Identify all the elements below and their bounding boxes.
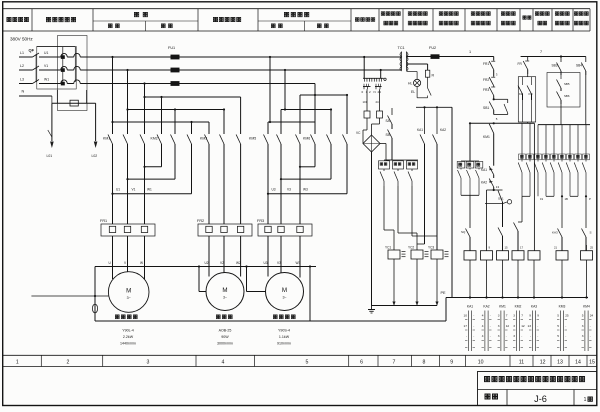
svg-text:KM1: KM1 — [483, 135, 490, 139]
PE rail above motors — [95, 266, 316, 268]
svg-text:5: 5 — [557, 334, 559, 338]
selector switch SA1 with circle — [507, 200, 511, 204]
motor3 rail y122 — [268, 121, 315, 123]
svg-text:KA3: KA3 — [552, 231, 558, 235]
clutch coil returns to rectifier rail — [393, 259, 395, 306]
svg-text:-: - — [530, 334, 531, 338]
svg-text:YC1: YC1 — [385, 245, 391, 249]
svg-text:FR: FR — [518, 62, 523, 66]
svg-text:L2: L2 — [20, 64, 24, 68]
svg-text:N: N — [22, 89, 25, 93]
header mid dividers for spanning cells — [93, 20, 198, 22]
svg-text:FR2: FR2 — [197, 219, 204, 223]
wire to coil KM4 — [585, 196, 587, 228]
svg-text:-: - — [490, 334, 491, 338]
bus bar L2 with crossing hops — [44, 69, 61, 71]
svg-text:J-6: J-6 — [534, 394, 547, 404]
svg-text:7: 7 — [540, 50, 542, 54]
neutral fuse bar — [52, 102, 96, 104]
motor1 reversing crossover wires — [144, 146, 146, 167]
control zero-volt wire — [451, 107, 453, 297]
motor3 drops from L1 L2 — [269, 57, 271, 122]
svg-text:U1: U1 — [44, 51, 48, 55]
svg-text:9: 9 — [537, 314, 539, 318]
svg-text:5: 5 — [557, 314, 559, 318]
svg-text:2: 2 — [67, 360, 70, 366]
phase L1 incoming wire — [19, 56, 33, 58]
svg-text:KA2: KA2 — [481, 181, 487, 185]
svg-text:8: 8 — [423, 360, 426, 366]
aux contact KA1 branch — [423, 106, 425, 108]
svg-text:3: 3 — [582, 324, 584, 328]
drawing title text — [484, 376, 584, 381]
svg-text:13: 13 — [557, 360, 563, 366]
svg-text:7: 7 — [521, 314, 523, 318]
svg-text:-: - — [490, 324, 491, 328]
signal lamp EL — [414, 79, 421, 86]
bottom ruler band — [3, 354, 597, 356]
svg-text:FR3: FR3 — [257, 219, 264, 223]
svg-text:SB6: SB6 — [564, 94, 570, 98]
svg-text:L1: L1 — [20, 51, 24, 55]
svg-text:YC2: YC2 — [408, 245, 414, 249]
svg-text:13: 13 — [528, 324, 532, 328]
svg-text:KM6: KM6 — [303, 137, 310, 141]
current sensing box (outer) — [58, 36, 88, 111]
svg-text:KA2: KA2 — [440, 128, 446, 132]
svg-text:24: 24 — [590, 314, 594, 318]
svg-text:9: 9 — [450, 360, 453, 366]
svg-text:V1: V1 — [44, 64, 48, 68]
svg-text:3~: 3~ — [127, 296, 131, 300]
svg-text:V1: V1 — [132, 188, 136, 192]
wires to rectifier — [366, 118, 368, 130]
resistor R — [425, 70, 429, 77]
limit cluster bottom rail — [461, 194, 479, 196]
svg-text:10: 10 — [464, 314, 468, 318]
label tu hao — [485, 394, 498, 399]
stop button SB1 with parallel branch — [493, 98, 495, 100]
motor M1 circle — [108, 272, 149, 313]
TC2 secondary windings — [363, 86, 371, 88]
relay contact KA1 arrow — [489, 166, 494, 175]
svg-text:1: 1 — [16, 360, 19, 366]
motor M3 name text — [273, 315, 295, 319]
motor3 rail y95 — [300, 94, 347, 96]
auxiliary wire rail y107 — [416, 106, 452, 108]
right rail 2 — [521, 56, 586, 58]
svg-text:3: 3 — [513, 324, 515, 328]
svg-text:3: 3 — [582, 334, 584, 338]
clutch ground rail — [372, 305, 438, 307]
svg-text:-: - — [506, 334, 507, 338]
motor1 tap junctions on buses — [111, 56, 113, 58]
neutral fuse FU — [70, 100, 78, 106]
lighting transformer TC2 primary taps — [363, 56, 365, 58]
svg-text:17: 17 — [464, 324, 468, 328]
cross reference table KM2 — [515, 311, 517, 352]
motor2 frame bond — [198, 265, 200, 267]
svg-text:KM2: KM2 — [515, 305, 522, 309]
svg-text:-: - — [473, 314, 474, 318]
right lower rail — [538, 124, 590, 126]
svg-text:3: 3 — [513, 334, 515, 338]
svg-text:7: 7 — [393, 360, 396, 366]
svg-text:25: 25 — [565, 314, 569, 318]
header table band — [3, 8, 590, 10]
coil KM3 — [556, 251, 568, 260]
svg-text:-: - — [590, 324, 591, 328]
svg-text:KM: KM — [529, 92, 533, 96]
cross reference table KA1 — [467, 311, 469, 352]
lighting fuse FU3 — [364, 111, 370, 118]
motor M3 leads — [267, 236, 269, 277]
svg-text:3: 3 — [498, 334, 500, 338]
clutch selector contact KA1 — [379, 161, 390, 169]
svg-text:-: - — [490, 314, 491, 318]
svg-text:3~: 3~ — [282, 296, 286, 300]
svg-text:SA1: SA1 — [498, 197, 504, 201]
svg-text:W1: W1 — [44, 78, 49, 82]
svg-text:R: R — [432, 74, 435, 78]
svg-text:KA1: KA1 — [467, 305, 473, 309]
svg-text:1B: 1B — [565, 197, 569, 201]
svg-text:Y90S-4: Y90S-4 — [278, 329, 290, 333]
svg-text:101: 101 — [363, 100, 368, 104]
svg-text:380V 50Hz: 380V 50Hz — [10, 37, 33, 42]
svg-text:S: S — [590, 231, 592, 235]
svg-text:12: 12 — [540, 360, 546, 366]
svg-text:KA1: KA1 — [417, 128, 423, 132]
header cell texts (pseudo CJK) — [7, 17, 29, 21]
svg-text:11: 11 — [519, 360, 524, 366]
svg-text:90W: 90W — [221, 335, 229, 339]
svg-text:1.1kW: 1.1kW — [279, 335, 290, 339]
title block frame — [478, 372, 597, 406]
motor M2 circle — [206, 273, 244, 311]
svg-text:3000r/min: 3000r/min — [217, 342, 233, 346]
svg-text:U2: U2 — [205, 261, 209, 265]
svg-text:TC1: TC1 — [398, 46, 405, 50]
svg-text:-: - — [565, 334, 566, 338]
lighting circuit wires down — [366, 89, 368, 111]
distribution rail y122 — [113, 121, 210, 123]
svg-text:12: 12 — [506, 324, 510, 328]
coil KM2 — [512, 251, 524, 260]
motor2 wires to overload — [208, 146, 210, 224]
pre-coil contact — [498, 228, 503, 237]
motor M2 name text — [216, 315, 232, 319]
isolation box around supply fuses — [37, 46, 76, 89]
bus bar L1 with crossing hops — [44, 56, 61, 58]
svg-text:KM3: KM3 — [559, 305, 566, 309]
rectifier DC negative long wire — [371, 152, 373, 306]
TC2 primary winding — [363, 77, 384, 79]
overload NC contact FR3 — [489, 87, 494, 96]
svg-text:6: 6 — [360, 360, 363, 366]
distribution rail y109.5 — [128, 109, 225, 111]
sensing coil verticals — [62, 47, 64, 82]
svg-text:1: 1 — [584, 397, 587, 403]
svg-text:7: 7 — [506, 314, 508, 318]
svg-text:5: 5 — [306, 360, 309, 366]
motor3 L3 corner drop — [314, 84, 316, 96]
svg-text:AOB-25: AOB-25 — [219, 329, 232, 333]
svg-text:KM4: KM4 — [583, 305, 590, 309]
svg-text:10: 10 — [478, 360, 484, 366]
svg-text:W3: W3 — [303, 188, 308, 192]
cross reference table KM4 — [584, 311, 586, 352]
svg-text:M: M — [282, 287, 287, 294]
svg-text:-: - — [466, 334, 467, 338]
motor3 right frame wire — [309, 265, 311, 267]
svg-text:SQ: SQ — [461, 230, 466, 234]
feeder drop L01 with arrow — [51, 96, 53, 103]
svg-text:V2: V2 — [220, 261, 224, 265]
svg-text:W3: W3 — [296, 261, 301, 265]
motor M1 leads — [112, 236, 114, 279]
svg-text:13: 13 — [496, 185, 500, 189]
svg-text:M: M — [126, 288, 131, 295]
svg-text:KM: KM — [519, 92, 523, 96]
motor3 wires to overload — [267, 194, 269, 224]
svg-text:W: W — [140, 261, 143, 265]
svg-text:PE: PE — [441, 291, 447, 295]
svg-text:4: 4 — [482, 324, 484, 328]
coil KA1 — [464, 251, 476, 260]
svg-text:25: 25 — [590, 246, 594, 250]
TC1 secondary tap wires — [407, 56, 431, 58]
ground symbol — [371, 306, 373, 310]
coil KA2 — [481, 251, 493, 260]
svg-text:0: 0 — [362, 90, 364, 94]
svg-text:SB5: SB5 — [564, 82, 570, 86]
svg-text:1: 1 — [469, 50, 471, 54]
interlock branch FR4 — [527, 57, 529, 61]
svg-text:V3: V3 — [277, 261, 281, 265]
motor3 rail y109.5 — [281, 109, 331, 111]
overload NC contact FR1 — [489, 61, 494, 69]
svg-text:17: 17 — [520, 246, 524, 250]
svg-text:M: M — [222, 287, 227, 294]
svg-text:-: - — [521, 334, 522, 338]
svg-text:FU1: FU1 — [168, 46, 175, 50]
svg-text:-: - — [473, 334, 474, 338]
wire to coil KA2 — [486, 190, 488, 251]
selector wires to clutch coils — [383, 186, 385, 230]
svg-text:SB4: SB4 — [576, 64, 582, 68]
stub wires from sensing box to neutral bar — [56, 90, 58, 103]
svg-text:5: 5 — [557, 324, 559, 328]
main rung corner — [493, 57, 495, 61]
svg-text:FR1: FR1 — [483, 62, 489, 66]
coil KM1 — [497, 251, 509, 260]
svg-text:15: 15 — [589, 360, 595, 366]
PE bottom rail — [95, 320, 446, 322]
rectifier DC positive feed — [380, 143, 386, 145]
svg-text:U1: U1 — [116, 188, 120, 192]
svg-text:SB1: SB1 — [483, 106, 489, 110]
svg-text:-: - — [537, 334, 538, 338]
svg-text:24: 24 — [376, 100, 380, 104]
motor1 phase drop wires — [112, 57, 114, 134]
motor1 wires to overload — [112, 194, 114, 224]
svg-text:5: 5 — [496, 117, 498, 121]
svg-text:3: 3 — [513, 314, 515, 318]
interlock box KM1 KM2 — [518, 77, 535, 122]
svg-text:KA3: KA3 — [531, 305, 537, 309]
svg-text:L02: L02 — [92, 154, 98, 158]
motor M3 circle — [266, 273, 304, 311]
wire to coil KA1 — [469, 195, 471, 228]
PE riser to control return rail — [445, 298, 447, 322]
svg-text:2: 2 — [369, 90, 371, 94]
svg-text:21: 21 — [554, 246, 558, 250]
overload NC contact FR2 — [489, 77, 494, 86]
svg-text:FR1: FR1 — [100, 219, 107, 223]
svg-text:9: 9 — [529, 314, 531, 318]
svg-text:U3: U3 — [264, 261, 268, 265]
svg-text:910r/min: 910r/min — [277, 342, 291, 346]
aux contact KA2 branch — [436, 106, 438, 108]
earth clamp symbol — [92, 304, 97, 313]
push button SB3 branch — [560, 57, 562, 63]
bus bar L3 with crossing hops — [44, 83, 61, 85]
wire 0V drop from rail corner — [533, 123, 535, 250]
svg-text:L3: L3 — [20, 78, 24, 82]
seal-in contact KM1 — [489, 124, 494, 134]
svg-text:P: P — [589, 197, 591, 201]
svg-text:FU2: FU2 — [429, 46, 436, 50]
svg-text:N: N — [374, 90, 376, 94]
contact row bottom links — [522, 195, 530, 197]
distribution rail y97 — [145, 96, 241, 98]
svg-text:-: - — [473, 324, 474, 328]
svg-text:VC: VC — [356, 131, 361, 135]
svg-text:3~: 3~ — [223, 296, 227, 300]
svg-text:-: - — [537, 324, 538, 328]
motor3 frame bond — [245, 265, 247, 267]
svg-text:QF: QF — [29, 48, 35, 53]
svg-text:3: 3 — [496, 73, 498, 77]
relay contact KA2 arrow — [489, 179, 494, 188]
limit switch cluster feed — [469, 122, 471, 124]
svg-text:U: U — [109, 261, 112, 265]
feeder drop L02 with arrow — [95, 103, 97, 141]
svg-text:2.2kW: 2.2kW — [123, 335, 134, 339]
svg-text:14: 14 — [575, 360, 581, 366]
control return rail PE — [446, 297, 588, 299]
svg-text:3: 3 — [498, 324, 500, 328]
svg-text:HL: HL — [408, 82, 412, 86]
svg-text:KA2: KA2 — [483, 305, 489, 309]
svg-text:-: - — [565, 324, 566, 328]
svg-text:4: 4 — [482, 334, 484, 338]
svg-text:3: 3 — [147, 360, 150, 366]
motor M1 name text — [115, 315, 137, 319]
svg-text:KM5: KM5 — [249, 137, 256, 141]
svg-text:4: 4 — [222, 360, 225, 366]
svg-text:SB3: SB3 — [552, 64, 558, 68]
wire to coil KM2 — [521, 196, 523, 222]
motor2 hang wires — [208, 122, 210, 134]
svg-text:W2: W2 — [236, 261, 241, 265]
svg-text:Y90L-4: Y90L-4 — [122, 329, 134, 333]
clutch selector contact KA3 — [407, 161, 418, 169]
svg-text:V: V — [124, 261, 127, 265]
svg-text:5: 5 — [582, 314, 584, 318]
push button SB4 branch — [585, 57, 587, 63]
svg-text:L01: L01 — [47, 154, 53, 158]
cross reference table KA3 — [531, 311, 533, 352]
lamp switch SA — [427, 77, 429, 88]
TC1 lamp tap — [407, 63, 428, 65]
svg-text:YC3: YC3 — [428, 245, 434, 249]
coil KM4 — [581, 251, 593, 260]
phase L3 incoming wire — [19, 83, 33, 85]
motor3 hang wires — [267, 122, 269, 134]
svg-text:1440r/min: 1440r/min — [120, 342, 136, 346]
clutch selector top rail — [384, 159, 418, 161]
svg-text:12: 12 — [521, 324, 525, 328]
lamp feed wire — [407, 71, 418, 73]
phase L2 incoming wire — [19, 69, 33, 71]
svg-text:V3: V3 — [287, 188, 291, 192]
svg-text:EL: EL — [411, 90, 415, 94]
limit switches SQ1 SQ2 SQ3 — [461, 160, 479, 162]
cross reference table KM1 — [500, 311, 502, 352]
motor3 reversing crossover wires — [299, 146, 301, 167]
right contact row — [521, 123, 523, 159]
svg-text:U3: U3 — [272, 188, 276, 192]
svg-text:-: - — [590, 334, 591, 338]
cross reference table KM3 — [559, 311, 561, 352]
svg-text:KM2: KM2 — [151, 137, 158, 141]
svg-text:FR3: FR3 — [483, 88, 489, 92]
cross reference table KA2 — [484, 311, 486, 352]
svg-text:15: 15 — [505, 246, 509, 250]
svg-text:SB: SB — [386, 133, 390, 137]
coil KA3 — [528, 251, 540, 260]
motor frame left down wire — [94, 267, 96, 322]
lighting switch chain wire — [391, 108, 393, 115]
svg-text:KM1: KM1 — [499, 305, 506, 309]
svg-text:FR2: FR2 — [483, 78, 489, 82]
svg-text:19: 19 — [540, 197, 544, 201]
svg-text:9: 9 — [489, 246, 491, 250]
left PE incoming wire — [31, 295, 108, 297]
button box SB5 SB6 — [547, 73, 580, 108]
clutch selector contact KA2 — [393, 161, 404, 169]
svg-text:4: 4 — [482, 314, 484, 318]
lighting fuse FU4 — [377, 111, 383, 118]
motor M2 leads — [208, 236, 210, 277]
rectifier bridge VC — [363, 135, 380, 152]
svg-text:KA1: KA1 — [481, 168, 487, 172]
motor3 tap junctions — [269, 56, 271, 58]
TC2 secondary terminals — [363, 87, 365, 90]
reverse-branch hang wires motor1 — [161, 97, 163, 134]
svg-text:3: 3 — [498, 314, 500, 318]
rung jog to coil KM1 — [493, 189, 495, 191]
wire to coil KM3 — [561, 196, 563, 228]
svg-text:W1: W1 — [147, 188, 152, 192]
control rail below start circuit — [470, 122, 534, 124]
breaker mechanical link — [35, 54, 37, 82]
